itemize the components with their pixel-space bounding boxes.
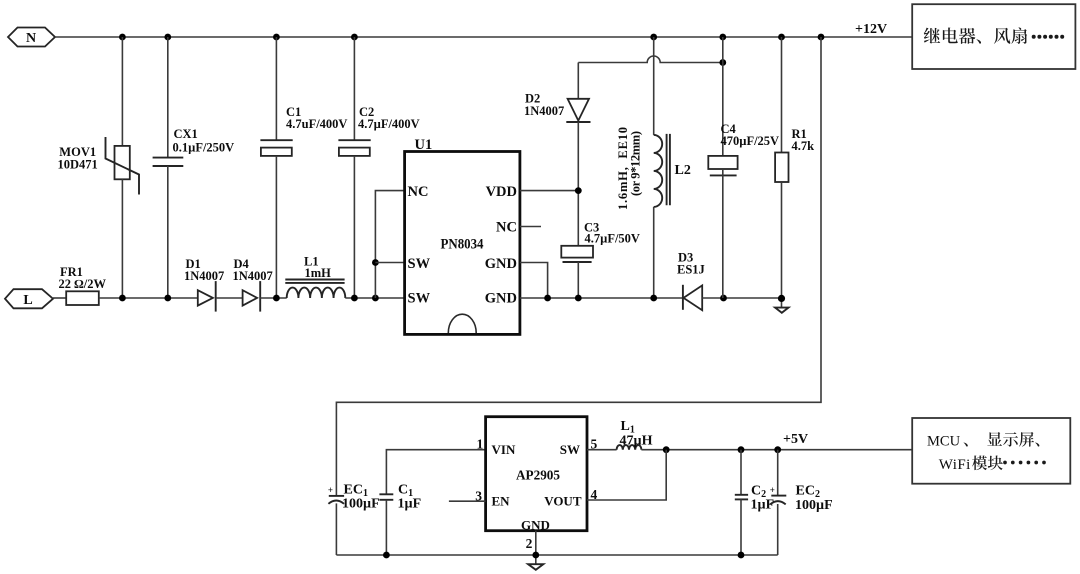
label relay fan text: [924, 27, 1064, 43]
wire bottom rail of 5V section: [336, 554, 777, 556]
terminal N: [8, 28, 55, 47]
wire L1 to U1 SW: [345, 297, 404, 299]
wire top rail N to +12V: [55, 36, 912, 38]
ground symbol (12V return): [775, 308, 788, 313]
wire D2 cathode to VDD node: [577, 122, 579, 246]
wire L to FR1: [53, 297, 66, 299]
wire U1 GND lower / bottom rail to D3: [520, 297, 683, 299]
svg-text:+12V: +12V: [855, 22, 887, 37]
svg-text:U1: U1: [415, 137, 433, 153]
wire EC1 bottom lead: [335, 503, 337, 555]
node junction GND pin on rail: [532, 552, 539, 559]
svg-text:ES1J: ES1J: [677, 263, 705, 277]
wire U1 GND upper to rail: [520, 263, 548, 299]
diode D3: [683, 285, 702, 310]
capacitor C4 (polarized): [708, 156, 737, 176]
label MCU display wifi text line1: [927, 432, 1039, 449]
wire U1 VDD to D2 cathode node: [520, 190, 578, 192]
wire EC2 bottom lead: [777, 504, 779, 555]
capacitor C1 (polarized): [260, 140, 292, 156]
op-amp U1 PN8034 body: [405, 152, 520, 335]
wire D1 to D4: [216, 297, 243, 299]
wire C1b bottom lead: [385, 500, 387, 555]
svg-text:1N4007: 1N4007: [184, 269, 224, 283]
node junction CX1 bottom: [164, 295, 171, 302]
node junction L2 bottom: [650, 295, 657, 302]
wire MOV1 top lead: [121, 37, 123, 146]
op-amp U2 AP2905 body: [486, 417, 587, 531]
node junction C2b top: [738, 446, 745, 453]
svg-text:VOUT: VOUT: [544, 494, 582, 509]
svg-text:22 Ω/2W: 22 Ω/2W: [59, 277, 107, 291]
wire C2 bottom lead: [353, 156, 355, 298]
wire L1b to MCU box (+5V rail): [641, 449, 912, 451]
wire C2 top lead: [353, 37, 355, 140]
diode D1: [198, 281, 216, 312]
wire R1 top lead: [781, 37, 783, 153]
svg-text:470µF/25V: 470µF/25V: [721, 134, 780, 148]
svg-text:VDD: VDD: [486, 184, 517, 200]
svg-text:4.7µF/400V: 4.7µF/400V: [358, 117, 420, 131]
svg-text:CX1: CX1: [174, 127, 198, 141]
wire C4 bottom lead: [722, 169, 724, 298]
svg-text:1µF: 1µF: [751, 498, 775, 513]
node junction top rail / +12V feed: [818, 34, 825, 41]
svg-text:4.7µF/50V: 4.7µF/50V: [585, 232, 640, 246]
varistor MOV1: [106, 137, 140, 195]
wire R1 bottom lead: [781, 182, 783, 308]
inductor L1b 47uH: [617, 445, 642, 450]
svg-text:GND: GND: [485, 256, 517, 272]
wire C3 bottom lead: [577, 262, 579, 298]
capacitor C3 (polarized): [561, 246, 593, 262]
wire U1 NC right stub: [520, 226, 541, 228]
node junction C1b bottom: [383, 552, 390, 559]
node junction top rail / L2 top: [650, 34, 657, 41]
label MCU display wifi text line2: [939, 455, 1046, 472]
svg-text:VIN: VIN: [492, 442, 516, 457]
wire CX1 bottom lead: [167, 166, 169, 298]
label C2b 1uF: [751, 484, 775, 513]
label L1 1mH: [304, 255, 331, 281]
node junction C4 bottom: [720, 295, 727, 302]
node junction NC/SW1: [372, 259, 379, 266]
svg-text:2: 2: [526, 536, 533, 551]
wire C2b bottom lead: [740, 499, 742, 555]
node junction VOUT feedback: [663, 446, 670, 453]
svg-text:1: 1: [477, 436, 484, 451]
wire C4 top lead: [722, 37, 724, 156]
wire L2 top lead: [653, 37, 655, 135]
svg-text:4.7uF/400V: 4.7uF/400V: [286, 117, 347, 131]
inductor L1 1mH: [285, 280, 345, 299]
wire GND pin stub: [535, 531, 537, 565]
node junction top rail / CX1 top: [164, 34, 171, 41]
wire FR1 to D1: [99, 297, 198, 299]
wire D3 anode to ground node: [702, 297, 781, 299]
wire U1 NC pin to SW tie: [375, 191, 404, 298]
node junction VDD/D2/C3: [575, 187, 582, 194]
wire CX1 top lead: [167, 37, 169, 158]
svg-text:PN8034: PN8034: [441, 237, 484, 253]
label D3 ES1J: [677, 251, 705, 277]
capacitor C2b 1uF: [735, 495, 748, 500]
node junction C2 bottom: [351, 295, 358, 302]
svg-text:L2: L2: [675, 163, 691, 178]
label FR1 22ohm/2W: [59, 265, 107, 291]
node junction C3 bottom: [575, 295, 582, 302]
label D4 1N4007: [233, 257, 273, 283]
svg-text:SW: SW: [408, 256, 431, 272]
wire C2b top lead: [740, 450, 742, 495]
label L1b 47uH: [620, 419, 653, 449]
svg-text:10D471: 10D471: [58, 158, 98, 172]
label CX1 0.1uF/250V: [173, 127, 235, 155]
wire C1 bottom lead: [275, 156, 277, 298]
node junction C2b bottom: [738, 552, 745, 559]
node junction top rail / MOV1 top: [119, 34, 126, 41]
node junction hop wire at C4 line: [719, 59, 726, 66]
node junction GND tie: [544, 295, 551, 302]
svg-text:0.1µF/250V: 0.1µF/250V: [173, 141, 235, 155]
wire U1 SW pin 1: [375, 262, 404, 264]
label EC2 100uF: [795, 484, 833, 514]
label R1 4.7k: [792, 127, 815, 153]
label C1 4.7uF/400V: [286, 105, 347, 131]
svg-text:1µF: 1µF: [398, 497, 422, 512]
label C4 470uF/25V: [721, 122, 780, 148]
capacitor EC2 (electrolytic): [770, 485, 787, 504]
svg-text:+: +: [770, 485, 775, 495]
label D2 1N4007: [524, 92, 564, 119]
wire MOV1 bottom lead: [121, 179, 123, 298]
wire EN stub: [449, 500, 486, 502]
label C1b 1uF: [398, 483, 422, 512]
capacitor C2 (polarized): [338, 140, 370, 156]
svg-text:L: L: [23, 293, 32, 308]
capacitor C1 (1uF): [379, 494, 393, 500]
node junction top rail / C1 top: [273, 34, 280, 41]
svg-text:1N4007: 1N4007: [524, 104, 564, 118]
label EC1 100uF: [342, 483, 380, 512]
svg-text:N: N: [26, 31, 36, 46]
label C2 4.7uF/400V: [358, 105, 420, 131]
svg-text:GND: GND: [485, 291, 517, 307]
svg-text:EN: EN: [492, 494, 511, 509]
node junction top rail / R1 top: [778, 34, 785, 41]
diode D2: [566, 99, 590, 122]
svg-text:WiFi: WiFi: [939, 457, 971, 473]
capacitor CX1: [153, 158, 184, 166]
relay/fan load box: [912, 4, 1075, 69]
svg-text:SW: SW: [408, 291, 431, 307]
node junction top rail / C4 top: [719, 34, 726, 41]
svg-text:SW: SW: [560, 442, 580, 457]
wire SW pin to L1b: [587, 449, 617, 451]
MCU load box: [912, 418, 1070, 484]
wire C1b top lead / VIN feed: [386, 450, 485, 495]
svg-text:MCU: MCU: [927, 433, 961, 449]
label D1 1N4007: [184, 257, 224, 283]
svg-text:+5V: +5V: [783, 432, 808, 447]
inductor L2 (EE10 transformer winding): [654, 134, 670, 207]
svg-text:+: +: [328, 485, 333, 495]
node junction SW tie: [372, 295, 379, 302]
resistor FR1: [66, 291, 99, 305]
svg-text:100µF: 100µF: [795, 498, 833, 513]
wire L2 bottom lead: [653, 207, 655, 298]
node junction C1 bottom: [273, 295, 280, 302]
svg-text:1mH: 1mH: [305, 266, 332, 280]
wire EC2 top lead: [777, 450, 779, 496]
wire D2 anode lead: [577, 63, 579, 99]
svg-text:NC: NC: [408, 184, 429, 200]
node junction MOV1 bottom: [119, 295, 126, 302]
node junction R1/D3/ground: [778, 295, 785, 302]
wire VOUT feedback: [587, 450, 666, 500]
svg-text:4.7k: 4.7k: [792, 139, 815, 153]
node junction EC2 top: [774, 446, 781, 453]
capacitor EC1 (electrolytic): [328, 485, 344, 504]
svg-text:GND: GND: [521, 517, 550, 532]
svg-text:(or 9*12mm): (or 9*12mm): [629, 131, 643, 196]
diode D4: [243, 281, 261, 312]
wire D2 anode to C4 top (crossover hop at L2): [578, 56, 723, 62]
label MOV1 10D471: [58, 145, 98, 172]
svg-text:1N4007: 1N4007: [233, 269, 273, 283]
wire C1 top lead: [275, 37, 277, 140]
label L2 value 1.6mH EE10 (rotated): [616, 127, 643, 210]
svg-text:47µH: 47µH: [620, 434, 653, 449]
svg-text:NC: NC: [496, 220, 517, 236]
svg-text:AP2905: AP2905: [516, 469, 560, 484]
terminal L: [5, 289, 53, 308]
svg-text:100µF: 100µF: [342, 497, 380, 512]
wire D4 to L1: [260, 297, 287, 299]
node junction top rail / C2 top: [351, 34, 358, 41]
ground symbol (5V return): [528, 564, 543, 570]
wire +12V feed to lower section: [336, 37, 821, 495]
label C3 4.7uF/50V: [584, 221, 640, 246]
resistor R1: [775, 153, 788, 183]
